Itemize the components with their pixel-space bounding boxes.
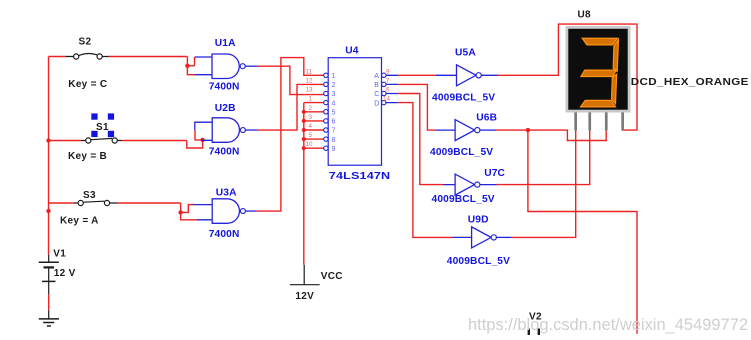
svg-text:7: 7 [332,128,336,135]
source V2 [528,312,542,336]
ground [39,310,59,326]
chip U4 74LS147N [306,46,391,183]
svg-text:4009BCL_5V: 4009BCL_5V [447,256,510,267]
segment a [582,38,617,45]
svg-text:12 V: 12 V [54,268,76,279]
svg-text:U1A: U1A [215,38,236,49]
op-amp U9D (buffer 4009BCL_5V) [447,215,512,267]
wire U3A output to U4 row1 [257,58,324,211]
power VCC [290,265,343,302]
segment d [581,100,616,107]
svg-text:74LS147N: 74LS147N [329,171,391,182]
svg-text:DCD_HEX_ORANGE: DCD_HEX_ORANGE [631,77,749,88]
switch S2 [66,37,109,91]
svg-text:7: 7 [386,77,390,84]
svg-text:4009BCL_5V: 4009BCL_5V [432,194,495,205]
op-amp U7C (buffer 4009BCL_5V) [432,168,506,205]
wire U1A input zigzag [187,57,195,75]
op-amp U6B (buffer 4009BCL_5V) [430,113,497,159]
wire U3A input zigzag [181,203,199,220]
svg-text:14: 14 [383,96,391,103]
svg-text:U8: U8 [578,10,592,21]
wire U4 unused-input tie rail to VCC [304,103,324,265]
wire U7C output to display pin2 [497,131,590,185]
svg-text:4: 4 [332,100,336,107]
svg-text:https://blog.csdn.net/weixin_4: https://blog.csdn.net/weixin_45499772 [468,316,748,334]
svg-text:VCC: VCC [321,271,343,282]
wire U6B branch down and right [528,130,637,334]
wire U2B input zigzag [187,130,203,148]
battery V1 [39,249,76,295]
node rail dot below S3 [46,209,50,213]
svg-text:9: 9 [332,146,336,153]
segment b [613,40,618,72]
op-amp U5A (buffer 4009BCL_5V) [432,48,498,104]
wire U6B output to display pin3 [496,130,606,140]
op-amp U1A (NAND 7400N) [195,38,257,93]
svg-text:Key = B: Key = B [68,151,107,162]
wire U4 outB to U6B [386,84,455,130]
svg-text:7400N: 7400N [209,229,240,240]
wire U9D output to display pin1 [512,131,576,238]
svg-text:C: C [374,91,379,98]
wire U4 outA to U5A [386,74,457,76]
svg-text:11: 11 [306,68,313,75]
svg-text:5: 5 [332,110,336,117]
op-amp U2B (NAND 7400N) [195,103,257,158]
svg-text:S2: S2 [79,37,92,48]
seven-segment display U8 [566,10,749,131]
segment g [581,70,617,76]
node U6B branch junction [526,128,530,132]
svg-text:6: 6 [386,87,390,94]
switch S1 [68,113,122,161]
wire U4 outC to U7C [386,94,455,185]
svg-text:3: 3 [309,114,313,121]
svg-text:Key = C: Key = C [68,79,107,90]
svg-text:2: 2 [309,105,313,112]
wire U5A output to display pin4 (around box) [498,24,638,130]
wire battery to ground [48,294,50,310]
op-amp U3A (NAND 7400N) [193,188,256,240]
wire S2 to U1A [109,56,188,58]
svg-text:4: 4 [309,123,313,130]
svg-text:8: 8 [332,137,336,144]
svg-text:U2B: U2B [215,103,236,114]
svg-text:6: 6 [332,119,336,126]
svg-text:U7C: U7C [484,168,505,179]
wire S3 left stub [49,202,75,204]
node U2B input junction [200,138,204,142]
svg-text:12: 12 [306,77,314,84]
node S1 rail junction [46,138,50,142]
svg-text:U6B: U6B [476,113,497,124]
wire U1A output to U4 row3 [257,66,324,94]
svg-text:12V: 12V [295,291,314,302]
node U3A input junction [178,210,182,214]
svg-text:D: D [374,100,379,107]
svg-text:S1: S1 [96,122,109,133]
svg-text:U3A: U3A [216,188,237,199]
wire left rail [48,57,50,255]
wire S3 to U3A [117,202,180,204]
segment c [612,74,617,104]
wire S2 left stub [49,56,67,58]
svg-text:4009BCL_5V: 4009BCL_5V [432,93,495,104]
svg-text:7400N: 7400N [209,82,240,93]
svg-text:U5A: U5A [455,48,476,59]
svg-text:B: B [374,82,379,89]
svg-text:7400N: 7400N [209,147,240,158]
wire S1 to U2B [122,140,187,142]
node tie dots rows5-9 [302,110,306,151]
svg-text:13: 13 [306,87,314,94]
node U1A input junction [185,64,189,68]
svg-text:1: 1 [332,73,336,80]
wire S1 left stub [49,140,82,142]
svg-text:4009BCL_5V: 4009BCL_5V [430,147,493,158]
svg-text:U9D: U9D [468,215,489,226]
svg-text:9: 9 [386,68,390,75]
svg-text:1: 1 [309,96,313,103]
svg-text:U4: U4 [345,46,359,57]
svg-text:10: 10 [306,141,314,148]
svg-text:2: 2 [332,82,336,89]
svg-text:5: 5 [309,132,313,139]
svg-text:Key = A: Key = A [60,216,99,227]
wire U2B output to U4 row2 [257,84,324,130]
svg-text:3: 3 [332,91,336,98]
svg-text:S3: S3 [83,190,96,201]
svg-text:V1: V1 [53,249,66,260]
wire U4 outD to U9D [386,103,472,238]
switch S3 [60,190,117,227]
svg-text:A: A [374,73,379,80]
